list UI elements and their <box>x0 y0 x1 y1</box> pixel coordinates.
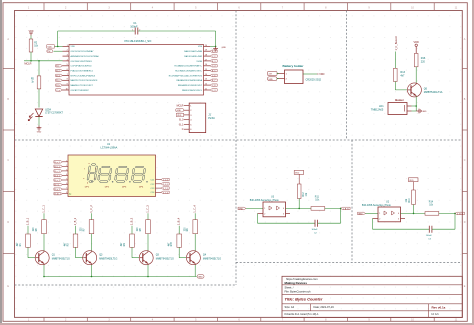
display U1 digit segments <box>87 164 146 183</box>
svg-text:OSC2/MCLR/VPP/RE3: OSC2/MCLR/VPP/RE3 <box>71 61 93 63</box>
svg-text:R12: R12 <box>303 192 305 197</box>
svg-text:B_g_1: B_g_1 <box>55 189 60 191</box>
wire input to U2 <box>366 212 379 214</box>
microcontroller U4 label <box>125 39 153 43</box>
power symbol VDD above R12 <box>294 171 304 185</box>
capacitor C1 <box>130 21 140 34</box>
wire base net to R15 <box>178 226 180 234</box>
power symbol VDD at U4 pin 1 <box>47 45 63 49</box>
wire sensor 2 bottom rail <box>373 228 430 230</box>
svg-text:9: 9 <box>368 7 370 10</box>
svg-text:8: 8 <box>66 192 67 194</box>
svg-text:B_3: B_3 <box>212 61 215 63</box>
wire R10 to output node <box>413 205 415 214</box>
svg-text:VDD: VDD <box>409 180 414 182</box>
wire R12 to output node <box>298 199 300 209</box>
svg-text:B_b_1: B_b_1 <box>55 166 60 168</box>
net label MCLR <box>24 62 31 65</box>
buzzer LD1 body <box>388 98 407 114</box>
wire label to R13 <box>394 52 396 69</box>
opto sensor U3 label <box>250 196 280 202</box>
svg-text:2: 2 <box>379 218 380 220</box>
net label 1_B_2 <box>73 217 77 225</box>
ground symbol at buzzer <box>416 109 427 114</box>
svg-text:E: E <box>7 285 9 288</box>
battery holder footprint label <box>306 78 322 81</box>
svg-text:2_C_2: 2_C_2 <box>163 184 168 186</box>
wire R8 to Q3 collector <box>147 234 149 251</box>
wire Q4 emitter to ground rail <box>194 265 196 277</box>
svg-text:R15: R15 <box>171 241 173 246</box>
port labels right of U4 <box>210 50 217 92</box>
svg-text:LCTW4-L59AA: LCTW4-L59AA <box>101 147 118 150</box>
svg-text:R16: R16 <box>421 57 426 60</box>
svg-text:MMBT9435LT1G: MMBT9435LT1G <box>99 257 117 260</box>
svg-text:C: C <box>464 159 466 162</box>
svg-text:g: g <box>88 173 89 175</box>
svg-text:VDD: VDD <box>71 46 76 48</box>
svg-text:B_2: B_2 <box>212 51 215 53</box>
svg-text:PIC18LF26K80-I_SO: PIC18LF26K80-I_SO <box>125 39 153 43</box>
wire Q2 emitter to ground rail <box>91 265 93 277</box>
ground symbol below LED <box>37 126 42 134</box>
port labels left of U4 <box>56 65 63 92</box>
net label at J1 pin 4 <box>179 120 184 122</box>
section divider vertical left-center <box>235 11 237 286</box>
wire battery output <box>303 73 317 75</box>
svg-text:CC3: CC3 <box>151 188 155 190</box>
capacitor C3 label <box>426 235 433 240</box>
wire Q1 emitter to ground rail <box>43 265 45 277</box>
resistor R8 <box>137 220 150 234</box>
wire base net to R4 <box>131 226 133 234</box>
svg-text:B_7: B_7 <box>212 80 215 82</box>
svg-text:RB6/IOCB6/SCX/SCL: RB6/IOCB6/SCX/SCL <box>182 90 203 92</box>
svg-text:10: 10 <box>411 7 414 10</box>
power symbol VDD above R10 <box>409 178 419 190</box>
svg-text:CR2025-2032: CR2025-2032 <box>306 78 322 81</box>
wire MCLR to U4 pin 4 <box>24 60 63 62</box>
svg-text:VDD: VDD <box>48 47 53 49</box>
wire R15 to Q4 base <box>179 247 187 257</box>
svg-text:3: 3 <box>283 213 284 215</box>
svg-text:2: 2 <box>66 165 67 167</box>
display U1 label <box>101 143 118 149</box>
wire R16 to Q6 collector <box>415 67 417 84</box>
svg-text:B: B <box>7 98 9 101</box>
svg-text:TMB12A05: TMB12A05 <box>371 108 384 111</box>
svg-text:MCLR: MCLR <box>177 104 184 107</box>
svg-text:A: A <box>7 38 9 41</box>
svg-text:8: 8 <box>325 7 327 10</box>
net label 1_C_1 <box>41 205 45 213</box>
net label 1_C_Buzzer <box>394 36 398 50</box>
display U1 decimal point labels <box>85 181 148 188</box>
wire collector net to R7 <box>91 213 93 219</box>
svg-text:GND: GND <box>198 277 203 279</box>
svg-text:MMBT9435LT1G: MMBT9435LT1G <box>52 257 70 260</box>
power flag at U4 pin 2 <box>47 50 63 54</box>
wire collector net to R9 <box>194 213 196 219</box>
transistor Q3 label <box>156 254 174 261</box>
svg-text:B_dp_1: B_dp_1 <box>55 194 61 196</box>
svg-text:Battery holder: Battery holder <box>283 64 305 68</box>
svg-text:VDD: VDD <box>414 41 419 44</box>
svg-text:4_C_4: 4_C_4 <box>163 192 168 194</box>
svg-text:OSCBT/TX/EX/RB7: OSCBT/TX/EX/RB7 <box>71 90 90 92</box>
capacitor C3 <box>429 226 432 233</box>
svg-text:3: 3 <box>108 7 110 10</box>
display U1 right pins and labels <box>151 178 170 194</box>
svg-text:LD1: LD1 <box>379 105 384 108</box>
wire input to U3 <box>246 207 263 209</box>
net label at J1 pin 6 <box>182 129 184 131</box>
svg-text:6: 6 <box>66 183 67 185</box>
svg-text:B_f_1: B_f_1 <box>55 185 60 187</box>
svg-text:Rev v0.1a: Rev v0.1a <box>432 305 446 309</box>
section divider horizontal bottom-left <box>15 284 237 286</box>
resistor R6 <box>33 220 46 234</box>
svg-text:D: D <box>464 221 466 224</box>
section divider vertical battery-buzzer <box>346 11 348 141</box>
svg-text:GND: GND <box>222 47 227 49</box>
input port label sensor 2 <box>358 212 366 215</box>
svg-text:7: 7 <box>66 188 67 190</box>
svg-text:1: 1 <box>264 208 265 210</box>
wire collector net to R6 <box>43 213 45 219</box>
svg-text:C: C <box>7 159 9 162</box>
svg-text:4: 4 <box>398 213 399 215</box>
svg-text:LTST-C170KRKT: LTST-C170KRKT <box>45 113 63 115</box>
svg-text:B_e: B_e <box>56 71 59 73</box>
transistor Q1 <box>35 251 49 265</box>
svg-text:CC2: CC2 <box>151 184 155 186</box>
wire VDD rail to C1 <box>57 31 135 47</box>
svg-text:1: 1 <box>379 213 380 215</box>
svg-text:B_0: B_0 <box>179 120 184 122</box>
svg-text:Title: Bytes Counter: Title: Bytes Counter <box>285 297 323 302</box>
wire R7 to Q2 collector <box>91 234 93 251</box>
svg-text:100nF: 100nF <box>312 229 319 231</box>
svg-text:R13: R13 <box>400 71 405 74</box>
wire R13 to Q6 base <box>395 82 411 90</box>
transistor Q6 label <box>424 87 443 94</box>
transistor Q2 <box>83 251 97 265</box>
svg-text:5: 5 <box>66 179 67 181</box>
wire R5 to LED D4 <box>38 89 40 108</box>
net label 1_C_4 <box>193 205 197 213</box>
wire R6 to Q1 collector <box>43 234 45 251</box>
ground symbol at U4 pin 20 <box>213 46 226 51</box>
section divider vertical sensor1-sensor2 <box>351 140 353 263</box>
LED D4 <box>28 109 63 121</box>
wire base net to R1 <box>27 226 29 234</box>
buzzer LD1 pins <box>407 106 416 111</box>
battery holder BT1 body <box>285 70 304 84</box>
svg-text:1: 1 <box>132 29 133 31</box>
capacitor C2 label <box>312 229 319 234</box>
wire C3 to sensor 2 output node <box>432 213 455 229</box>
wire Q6 emitter down <box>415 96 417 111</box>
svg-text:PW: PW <box>47 51 50 53</box>
svg-text:C_8: C_8 <box>212 85 215 87</box>
microcontroller U4 pins <box>63 45 211 92</box>
power symbol VDD at battery output <box>317 73 325 76</box>
wire base net to R3 <box>75 226 77 234</box>
resistor R10 <box>406 190 416 205</box>
wire R1 to Q1 base <box>28 247 36 257</box>
title block <box>282 276 462 317</box>
output port label sensor 2 <box>455 212 465 215</box>
wire R11 to sensor 1 output <box>325 208 342 210</box>
svg-text:1_B_S: 1_B_S <box>343 208 350 210</box>
battery holder BT1 pins <box>279 73 288 80</box>
svg-text:7: 7 <box>282 7 284 10</box>
svg-text:3_C_3: 3_C_3 <box>163 188 168 190</box>
transistor Q4 label <box>203 254 221 261</box>
svg-text:B_a_1: B_a_1 <box>55 162 60 164</box>
battery holder section title <box>283 64 305 68</box>
svg-text:VDD: VDD <box>29 31 34 33</box>
section divider horizontal sensors-bottom <box>236 262 462 264</box>
svg-text:B_1: B_1 <box>179 124 184 126</box>
svg-text:MCLR: MCLR <box>24 62 31 65</box>
resistor R15 <box>168 234 181 247</box>
svg-text:GND: GND <box>358 213 363 215</box>
display U1 segment letters <box>83 163 97 185</box>
display U1 left pins and labels <box>54 160 68 195</box>
svg-text:1: 1 <box>66 160 67 162</box>
svg-text:B_c_1: B_c_1 <box>55 171 60 173</box>
wire collector net to R8 <box>147 213 149 219</box>
resistor R5 <box>31 76 41 89</box>
svg-text:100nF: 100nF <box>426 235 433 237</box>
svg-text:4: 4 <box>283 208 284 210</box>
connector J1 body <box>189 103 206 133</box>
svg-text:GND: GND <box>177 110 182 112</box>
svg-text:LED4: LED4 <box>45 110 51 112</box>
power symbol VDD at J1 pin 3 <box>176 113 183 117</box>
output port label sensor 1 <box>341 207 351 210</box>
svg-text:CC4: CC4 <box>151 192 155 194</box>
net label 1_B_3 <box>129 217 133 225</box>
svg-text:R10: R10 <box>409 198 411 203</box>
svg-text:C_3: C_3 <box>212 90 215 92</box>
svg-text:220: 220 <box>421 61 426 64</box>
svg-text:1: 1 <box>28 7 30 10</box>
svg-text:4: 4 <box>66 174 67 176</box>
svg-text:2: 2 <box>65 7 67 10</box>
svg-text:4k7: 4k7 <box>400 75 405 78</box>
svg-text:B_f: B_f <box>56 66 59 68</box>
wire sensor 1 bottom rail <box>258 222 316 224</box>
net label at J1 pin 5 <box>179 124 184 126</box>
svg-text:GND: GND <box>239 208 244 210</box>
resistor R2 <box>29 36 39 53</box>
svg-text:B_d_1: B_d_1 <box>55 175 60 177</box>
svg-text:MMBT9435LT1G: MMBT9435LT1G <box>203 257 221 260</box>
svg-text:VDD: VDD <box>177 115 182 117</box>
svg-text:VUSB: VUSB <box>196 61 202 63</box>
microcontroller U4 body <box>69 45 204 96</box>
resistor R7 <box>81 220 94 234</box>
power flag at battery pin 1 <box>268 72 279 76</box>
transistor Q2 label <box>99 254 117 261</box>
svg-text:d: d <box>87 183 88 185</box>
resistor R12 <box>297 184 308 199</box>
power symbol VDD above R2 <box>29 31 34 35</box>
wire Q3 emitter to ground rail <box>147 265 149 277</box>
buzzer LD1 label <box>371 105 384 112</box>
svg-text:GND: GND <box>268 79 273 81</box>
wire C1 to VSS rail <box>138 31 217 47</box>
svg-text:GND: GND <box>422 111 427 113</box>
wire U2 output <box>401 213 426 215</box>
transistor Q4 <box>186 251 200 265</box>
display U1 body <box>68 155 156 197</box>
ground symbol at J1 pin 2 <box>176 108 184 112</box>
svg-text:Making Devices: Making Devices <box>285 281 308 285</box>
svg-text:MMBT9435LT1G: MMBT9435LT1G <box>156 257 174 260</box>
svg-text:3: 3 <box>66 169 67 171</box>
net label 1_B_4 <box>177 217 181 225</box>
resistor R9 <box>184 220 197 234</box>
svg-text:C_6: C_6 <box>212 75 215 77</box>
wire C2 to sensor 1 output node <box>318 208 341 223</box>
opto sensor U2 pins <box>373 211 406 220</box>
wire LED to ground <box>38 117 40 126</box>
wire U3 output <box>286 208 312 210</box>
svg-text:MMBT5401LT1A: MMBT5401LT1A <box>424 91 443 94</box>
resistor R16 <box>414 53 425 66</box>
svg-text:6: 6 <box>238 7 240 10</box>
wire U2 pin 2 to bottom rail <box>372 219 374 230</box>
svg-text:VDD: VDD <box>319 73 324 76</box>
svg-text:E: E <box>464 285 466 288</box>
svg-text:B_e_1: B_e_1 <box>55 180 60 182</box>
svg-text:c: c <box>94 178 95 180</box>
wire R3 to Q2 base <box>76 247 84 257</box>
transistor Q3 <box>139 251 153 265</box>
svg-text:A: A <box>464 38 466 41</box>
ground rail wire <box>44 276 197 278</box>
net label 1_C_2 <box>89 205 93 213</box>
svg-text:CC1: CC1 <box>151 180 155 182</box>
wire R4 to Q3 base <box>132 247 140 257</box>
wire R14 to sensor 2 output <box>439 213 456 215</box>
svg-text:D: D <box>7 221 9 224</box>
opto sensor U3 pins <box>258 206 291 215</box>
svg-text:GND: GND <box>37 132 42 134</box>
wire R9 to Q4 collector <box>194 234 196 251</box>
opto sensor U2 body <box>378 207 401 222</box>
opto sensor U3 body <box>263 202 286 217</box>
section divider horizontal middle <box>15 139 463 141</box>
net label 1_C_3 <box>145 205 149 213</box>
input port label sensor 1 <box>238 207 246 210</box>
wire MCLR to R5 <box>38 60 40 76</box>
svg-text:C_4: C_4 <box>212 66 215 68</box>
svg-text:VSS: VSS <box>198 46 203 48</box>
svg-text:4: 4 <box>152 7 154 10</box>
resistor R4 <box>121 234 134 247</box>
net label MCLR at J1 pin 1 <box>177 104 184 107</box>
svg-text:2_B_S: 2_B_S <box>457 213 464 215</box>
resistor R1 <box>17 234 30 247</box>
net label 1_B_1 <box>25 217 29 225</box>
capacitor C2 <box>315 220 318 227</box>
svg-text:3: 3 <box>398 218 399 220</box>
transistor Q1 label <box>52 254 70 261</box>
ground flag at battery pin 2 <box>268 77 279 81</box>
svg-text:1_C_1: 1_C_1 <box>163 180 168 182</box>
power symbol VCC above R16 <box>414 41 419 54</box>
resistor R3 <box>65 234 78 247</box>
svg-text:B_b: B_b <box>56 85 59 87</box>
svg-text:11: 11 <box>455 7 458 10</box>
ground symbol at rail end <box>197 275 204 279</box>
connector J1 pins <box>184 105 193 131</box>
resistor R13 <box>394 68 406 81</box>
resistor R11 <box>311 197 325 211</box>
svg-text:2: 2 <box>264 213 265 215</box>
transistor Q6 <box>407 83 421 97</box>
wire R2 to MCLR net <box>30 52 32 62</box>
svg-text:B: B <box>464 98 466 101</box>
svg-text:R14: R14 <box>429 202 434 204</box>
resistor R14 <box>425 202 439 216</box>
connector J1 label <box>208 113 215 121</box>
wire U3 pin 2 to bottom rail <box>257 214 259 224</box>
svg-text:5: 5 <box>195 7 197 10</box>
svg-text:C_2: C_2 <box>212 56 215 58</box>
svg-text:B_d: B_d <box>56 75 59 77</box>
opto sensor U2 label <box>362 201 392 207</box>
svg-text:B_5: B_5 <box>212 71 215 73</box>
display U1 dp pin name <box>69 194 72 196</box>
svg-text:B_c: B_c <box>56 80 59 82</box>
